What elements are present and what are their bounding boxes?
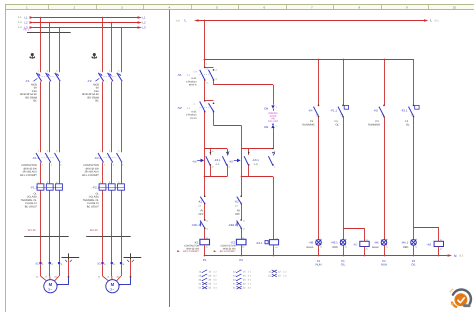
svg-text:N/C+N/O: N/C+N/O [268,120,278,123]
svg-text:A1: A1 [275,237,277,240]
svg-text:A1: A1 [440,239,442,242]
svg-text:9: 9 [406,6,408,10]
page left border [5,5,7,312]
svg-text:3: 3 [109,69,110,72]
svg-text:O: O [194,103,196,106]
svg-text:2: 2 [104,163,105,166]
off contact -K1 [204,196,205,197]
svg-text:A2: A2 [242,246,244,249]
relay branch -K7 [343,228,365,230]
svg-text:BC-LC1D09P7: BC-LC1D09P7 [20,174,37,177]
svg-text:14: 14 [206,81,208,84]
svg-text:P2: P2 [376,120,380,123]
svg-text:-K4: -K4 [192,160,197,164]
seal contact -K3.2 (starter 2) [248,149,250,155]
svg-text:U1: U1 [36,275,38,278]
anchor symbol 2 [92,54,97,59]
svg-text:21: 21 [215,69,217,72]
svg-text:3: 3 [109,150,110,153]
svg-text:BC: BC [95,100,99,103]
svg-text:-H5.1: -H5.1 [331,241,338,245]
svg-text:P2: P2 [239,258,243,262]
svg-text:M: M [111,282,115,287]
svg-text:1.2: 1.2 [18,21,22,24]
svg-text:L2: L2 [25,20,29,24]
watermark logo: orange disc [454,293,467,306]
svg-text:-K4: -K4 [308,109,313,113]
svg-text:1: 1 [206,62,207,65]
svg-text:A-B: A-B [254,163,258,166]
PE bus line [27,32,71,34]
bottom rail N [205,255,448,257]
watermark logo: orange tail arc [452,303,456,307]
svg-text:2: 2 [74,6,76,10]
svg-text:-K5: -K5 [374,109,379,113]
svg-text:3: 3 [274,150,275,153]
svg-text:5: 5 [118,150,119,153]
svg-text:U1: U1 [98,275,100,278]
svg-text:BC: BC [33,100,37,103]
PE wire to motor 1 [68,260,70,277]
motor -M1 [44,280,57,293]
seal-in loop starter 1 [205,148,227,150]
svg-text:-F2: -F2 [87,79,92,83]
svg-text:-K2: -K2 [234,199,239,203]
svg-text:A2: A2 [366,247,368,250]
svg-text:22: 22 [215,78,217,81]
svg-text:RUN: RUN [381,263,387,267]
svg-text:22: 22 [228,166,230,169]
motor -M2 [106,280,119,293]
aux contact on right leg (starter 1) [227,149,229,155]
seal contact -K3.1 (starter 1) [210,149,212,155]
svg-text:OL: OL [336,124,340,127]
svg-text:3∼: 3∼ [48,288,53,292]
svg-text:3: 3 [121,6,123,10]
svg-text:BC-LRD07: BC-LRD07 [25,205,38,208]
svg-text:-F1.1: -F1.1 [30,185,37,189]
rail L right arrow [424,19,429,22]
svg-text:A2: A2 [440,247,442,250]
EM column contact (starter 2) [272,152,273,153]
S2 bypass wire to starter 2 [213,112,215,126]
svg-text:21: 21 [228,150,230,153]
svg-text:A-A: A-A [216,163,220,166]
wire S1 to S2 [204,80,206,100]
svg-text:8: 8 [359,6,361,10]
svg-text:RUNNING: RUNNING [302,124,314,127]
svg-text:-S2: -S2 [177,106,182,110]
wires to terminals 2 [102,237,104,262]
svg-text:1: 1 [38,69,39,72]
svg-text:L: L [185,19,187,23]
watermark logo: check mark [458,298,464,303]
svg-text:-K8: -K8 [427,242,432,246]
main feed wire starter 1 [204,20,206,22]
svg-text:-H5: -H5 [309,241,314,245]
svg-text:1.1: 1.1 [18,16,22,19]
svg-text:L1: L1 [25,15,29,19]
contactor coil -K2 [236,239,246,245]
svg-text:=1/: =1/ [176,19,180,22]
svg-text:-F2.1: -F2.1 [92,185,99,189]
svg-text:3: 3 [47,150,48,153]
svg-text:2.2: 2.2 [187,74,191,77]
ground symbol 1 [62,257,80,259]
svg-text:5: 5 [56,150,57,153]
svg-text:-S1: -S1 [177,73,182,77]
svg-text:O/L: O/L [341,263,346,267]
contact -F1.1 [342,105,343,106]
wires to terminals 1 [40,237,42,262]
svg-text:-K7: -K7 [353,242,358,246]
svg-text:6: 6 [264,6,266,10]
svg-text:-F1: -F1 [25,79,30,83]
anchor symbol 1 [30,54,35,59]
svg-text:1: 1 [38,150,39,153]
bus L1 source arrow [30,16,35,19]
branch 2: drops from buses [102,17,104,19]
svg-text:1: 1 [100,69,101,72]
svg-text:1.2: 1.2 [187,107,191,110]
svg-text:P1: P1 [310,120,314,123]
page zone strip [5,5,474,10]
watermark logo: name plate [463,304,470,307]
svg-text:RUNNING: RUNNING [368,124,380,127]
svg-text:BC-LRD07: BC-LRD07 [87,205,100,208]
svg-text:A1: A1 [206,237,208,240]
off contact -K2 [241,196,242,197]
svg-text:10: 10 [453,6,457,10]
svg-text:-H6: -H6 [374,241,379,245]
svg-text:A-2: A-2 [411,114,414,117]
svg-text:-PB1.1: -PB1.1 [191,223,200,227]
svg-text:-PB2.1: -PB2.1 [228,223,237,227]
svg-text:1.3: 1.3 [18,26,22,29]
svg-text:OL: OL [406,124,410,127]
svg-text:A1: A1 [366,239,368,242]
svg-text:-K3.1: -K3.1 [214,158,221,162]
svg-text:A-2: A-2 [316,114,319,117]
svg-text:5: 5 [118,69,119,72]
svg-text:Green: Green [372,246,380,249]
svg-text:Green: Green [306,246,314,249]
bus L2 source arrow [30,21,35,24]
svg-text:/2.1: /2.1 [435,19,440,22]
svg-text:BC-LC1D09P7: BC-LC1D09P7 [183,250,199,253]
svg-text:-F1.1: -F1.1 [330,109,337,113]
bus L3 [33,27,138,29]
rail L left arrow [194,19,199,22]
svg-text:2: 2 [276,125,277,128]
column -K4 from sub rail [318,59,320,61]
svg-text:PE.1: PE.1 [24,29,30,32]
svg-text:13: 13 [212,150,214,153]
svg-text:BC-LC1D09P7: BC-LC1D09P7 [82,174,99,177]
svg-text:13: 13 [243,220,245,223]
PE wire to motor 2 [130,260,132,277]
svg-text:6: 6 [60,163,61,166]
svg-text:OFF: OFF [235,213,240,216]
svg-text:RUN: RUN [315,263,321,267]
svg-text:V1: V1 [107,275,109,278]
svg-text:P1: P1 [203,258,207,262]
pushbutton -PB [241,219,242,220]
svg-text:L1: L1 [143,15,147,19]
svg-text:BC-LC1D09P7: BC-LC1D09P7 [220,250,236,253]
svg-text:-K3.1: -K3.1 [256,241,263,245]
rail N right arrow [448,254,453,257]
column -F2.1 from sub rail [413,59,415,105]
branch 1: drops from buses [40,17,42,19]
svg-text:A-2: A-2 [235,205,238,208]
contact -K5 [383,105,384,106]
pushbutton -PB [204,219,205,220]
svg-text:14: 14 [206,228,208,231]
sub rail 2 [204,59,206,61]
bus L3 source arrow [30,26,35,29]
EM column down to K3.1 coil [273,177,275,240]
svg-text:5: 5 [216,6,218,10]
watermark logo: faint streak [450,289,453,292]
zone dividers and numbers [48,5,50,10]
watermark logo: gray arc [453,290,471,304]
svg-text:X1: X1 [97,262,101,266]
svg-text:6: 6 [122,163,123,166]
svg-text:M: M [49,282,53,287]
svg-text:V1: V1 [45,275,47,278]
svg-text:3∼: 3∼ [110,288,115,292]
svg-text:OFF: OFF [199,213,204,216]
svg-text:-H6.1: -H6.1 [401,241,408,245]
bus L1 end arrow [138,16,143,19]
contact -K4 [318,105,319,106]
svg-text:W2 4C: W2 4C [90,229,98,232]
svg-text:-K1: -K1 [198,199,203,203]
svg-text:14: 14 [212,166,214,169]
column -K5 from sub rail [384,59,386,61]
three-phase bus L1 [33,17,138,19]
svg-text:13: 13 [206,68,208,71]
svg-text:1: 1 [26,6,28,10]
svg-text:L3: L3 [143,25,147,29]
svg-text:W1 4C: W1 4C [28,229,36,232]
svg-text:A-2: A-2 [198,205,201,208]
svg-text:4: 4 [113,163,114,166]
svg-text:L: L [430,19,432,23]
svg-text:O/A: O/A [194,70,198,73]
svg-text:-F2.1: -F2.1 [401,109,408,113]
bus L3 end arrow [138,26,143,29]
svg-text:4: 4 [274,166,275,169]
svg-text:/2.1: /2.1 [459,255,464,258]
svg-text:A2: A2 [275,246,277,249]
wires into motor 2 [103,276,109,281]
svg-text:O/L: O/L [411,263,416,267]
svg-text:3: 3 [47,69,48,72]
svg-text:X2: X2 [345,246,347,249]
svg-text:A-2: A-2 [381,114,384,117]
bus L2 [33,22,138,24]
svg-text:4: 4 [51,163,52,166]
svg-text:14: 14 [243,228,245,231]
svg-text:RED: RED [333,246,338,249]
S2 main wire down [204,112,206,196]
svg-text:A1: A1 [242,237,244,240]
svg-text:X2: X2 [320,246,322,249]
svg-text:X2: X2 [386,246,388,249]
svg-text:L2: L2 [143,20,147,24]
svg-text:A-2: A-2 [340,114,343,117]
svg-text:M=O-A: M=O-A [189,84,197,87]
contact -F2.1 [413,105,414,106]
svg-text:5: 5 [56,69,57,72]
svg-text:-K5: -K5 [229,160,234,164]
S1 bypass wire to EM stop [213,80,215,84]
svg-text:RED: RED [403,246,408,249]
column -F1.1 from sub rail [343,59,345,61]
svg-text:X2: X2 [415,246,417,249]
svg-text:13: 13 [206,220,208,223]
main feed wire starter 2 [241,125,243,196]
svg-text:PL=O: PL=O [190,117,196,120]
svg-text:X1: X1 [35,262,39,266]
svg-text:1: 1 [100,150,101,153]
ground symbol 2 [124,257,142,259]
wires into motor 1 [41,276,47,281]
svg-text:A2: A2 [206,246,208,249]
svg-text:4: 4 [169,6,171,10]
bus L2 end arrow [138,21,143,24]
section divider line [169,10,171,307]
contactor coil -K1 [200,239,210,245]
seal-in loop starter 2 [241,148,273,150]
svg-text:1: 1 [276,106,277,109]
svg-text:-K3.1: -K3.1 [252,158,259,162]
svg-text:7: 7 [311,6,313,10]
relay branch -K8 [414,227,439,229]
svg-text:2: 2 [42,163,43,166]
